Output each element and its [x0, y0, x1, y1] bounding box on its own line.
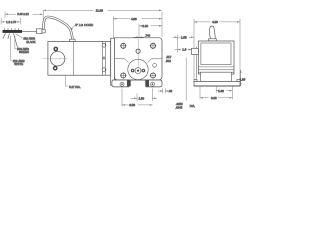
- dim 2.10: [138, 24, 140, 37]
- dim 3.23: [199, 87, 201, 100]
- svg-text:.740: .740: [145, 33, 151, 37]
- boss center rings: [135, 68, 141, 74]
- dim 4.88: [112, 16, 114, 41]
- svg-text:3.00: 3.00: [129, 103, 135, 107]
- wires from connector: [3, 33, 18, 47]
- dim 1.9: [175, 49, 181, 51]
- dim 4.39: [193, 19, 195, 80]
- dim .32: [162, 88, 164, 93]
- dim 1.50: [136, 94, 138, 102]
- svg-text:2.10: 2.10: [142, 24, 148, 28]
- dim 11.68 overall: [42, 10, 44, 29]
- svg-text:11.68: 11.68: [96, 8, 103, 12]
- 5.27 DIA leader: [66, 75, 69, 86]
- svg-text:GREEN: GREEN: [19, 50, 29, 54]
- cord grommet at motor: [70, 39, 75, 41]
- body seam: [73, 42, 75, 76]
- dim .740/.735 tiny feature on gearbox top: [134, 36, 139, 38]
- wire to cord fitting: [22, 30, 38, 32]
- svg-text:WHITE: WHITE: [14, 62, 23, 66]
- motor flange: [101, 42, 103, 76]
- svg-text:1.9: 1.9: [182, 48, 186, 52]
- svg-text:3.38 ±.12: 3.38 ±.12: [17, 12, 29, 16]
- svg-text:.502: .502: [166, 59, 172, 63]
- right view cord stub: [209, 26, 215, 39]
- svg-text:1.2 ±.73: 1.2 ±.73: [6, 20, 16, 24]
- svg-text:.6245: .6245: [175, 106, 182, 110]
- feet gussets dark: [127, 80, 131, 86]
- gear adapter plate: [111, 38, 115, 85]
- centerline: [43, 58, 68, 60]
- boss outer circle: [128, 59, 148, 79]
- cord strain fitting: [37, 29, 43, 34]
- end cap circle: [50, 51, 65, 65]
- dim 3.00: [121, 89, 123, 107]
- label leaders for wires: [15, 34, 23, 39]
- svg-text:3.23: 3.23: [211, 96, 217, 100]
- svg-text:5.27 DIA.: 5.27 DIA.: [69, 85, 81, 89]
- gearbox housing face: [114, 38, 162, 80]
- cord label leader: [71, 25, 75, 29]
- svg-text:5' LG CORD: 5' LG CORD: [75, 23, 94, 27]
- shaft dia leader: [185, 58, 187, 101]
- svg-text:1.50: 1.50: [139, 96, 145, 100]
- flange front line between gussets: [129, 79, 147, 81]
- svg-text:BLACK: BLACK: [26, 40, 35, 44]
- base: [194, 81, 240, 86]
- svg-text:1.55: 1.55: [181, 35, 187, 39]
- svg-text:4.39: 4.39: [212, 20, 218, 24]
- dim 1.69: [240, 70, 242, 86]
- svg-text:DIA.: DIA.: [190, 104, 196, 108]
- svg-text:.6250: .6250: [176, 102, 183, 106]
- dim 1.2 +-.73: [0, 18, 2, 25]
- svg-text:1.69: 1.69: [240, 77, 246, 81]
- dim 1.62: [215, 87, 217, 93]
- feet holes: [120, 82, 124, 86]
- shaft stub left: [192, 48, 199, 54]
- dim 1.55: [177, 35, 179, 53]
- small hole above boss + centerline: [137, 39, 139, 67]
- svg-text:1.62: 1.62: [218, 89, 224, 93]
- connector terminal block: [3, 30, 23, 33]
- svg-text:4.88: 4.88: [131, 17, 137, 21]
- dim 3.38 +-.12: [4, 12, 6, 18]
- svg-text:.32: .32: [168, 89, 172, 93]
- cord arc: [43, 17, 72, 41]
- right view body: [198, 41, 234, 74]
- right side plug: [153, 63, 157, 67]
- end cap bolts: [53, 47, 58, 52]
- motor body side view: [48, 42, 111, 76]
- gearbox corner bolts: [120, 43, 156, 79]
- feet: [112, 80, 129, 87]
- ledge and shoulders: [115, 58, 125, 60]
- svg-text:.517: .517: [166, 55, 172, 59]
- boss side bolts: [131, 69, 135, 73]
